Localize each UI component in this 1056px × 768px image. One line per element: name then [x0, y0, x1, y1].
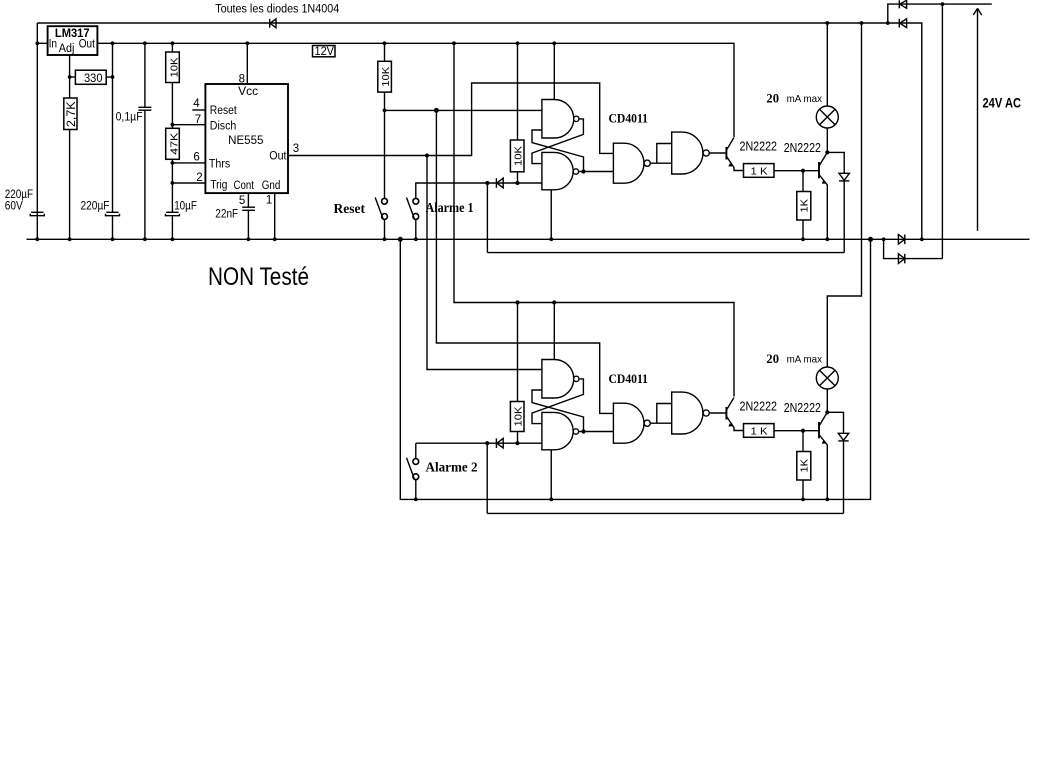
- junction diode2 line / 10K2: [515, 441, 519, 445]
- svg-text:2: 2: [196, 172, 202, 184]
- transistor Q4 2N2222: [819, 412, 827, 499]
- svg-text:10K: 10K: [169, 58, 181, 78]
- wire NE555 Out pin3: [288, 83, 613, 156]
- junction diode line left: [485, 181, 489, 185]
- wire 1K pulldown to lower rail: [802, 480, 804, 499]
- arrow 24V AC: [973, 8, 981, 231]
- wire ground down to lower rail: [400, 239, 870, 499]
- junction lower supply / gate A2: [552, 300, 556, 304]
- svg-text:220µF: 220µF: [81, 200, 110, 212]
- transistor Q3 2N2222: [726, 398, 743, 431]
- svg-text:330: 330: [84, 71, 103, 85]
- NAND gate B2 (latch lower): [542, 412, 579, 449]
- diode D2 on upper branch: [899, 0, 906, 8]
- resistor 1 K base lower: [744, 424, 775, 438]
- svg-text:2N2222: 2N2222: [740, 140, 778, 154]
- junction top rail to lamp1: [825, 21, 829, 25]
- NAND gate A (latch upper): [542, 100, 579, 139]
- svg-text:In: In: [49, 38, 58, 50]
- junction Q4 collector node: [825, 410, 829, 414]
- NAND gate D2: [672, 392, 710, 434]
- diode D5 flyback upper: [827, 152, 849, 252]
- switch Alarme 2: [407, 458, 419, 500]
- svg-text:Adj: Adj: [59, 43, 75, 55]
- wire top-right upper branch: [888, 4, 992, 23]
- junction on top line: [941, 2, 945, 6]
- svg-text:Toutes les diodes 1N4004: Toutes les diodes 1N4004: [215, 3, 340, 15]
- wire from top line down to lower diode pair: [941, 4, 943, 259]
- junction lower supply / 10K2: [515, 300, 519, 304]
- wire 10K to 47K: [171, 83, 173, 129]
- svg-text:10µF: 10µF: [174, 200, 197, 212]
- svg-text:1 K: 1 K: [751, 166, 768, 178]
- wire gate B bottom to ground: [550, 190, 552, 240]
- wire pin1 Gnd: [274, 193, 276, 239]
- junction ground / right vertical: [920, 237, 924, 241]
- junction lower-rail/ground right: [868, 237, 873, 242]
- junction gateB2/lower rail: [549, 498, 553, 502]
- capacitor 0,1uF: [116, 107, 152, 239]
- svg-text:60V: 60V: [5, 201, 23, 213]
- wire pin5 Cont: [247, 193, 249, 207]
- switch Alarme 1: [407, 198, 419, 240]
- junction 1K/ground: [801, 237, 805, 241]
- wire LM317 In: [37, 42, 47, 44]
- junction Trig: [171, 181, 175, 185]
- junction Disch: [171, 123, 175, 127]
- transistor Q2 2N2222: [819, 152, 827, 239]
- junction alarme2/lower rail: [414, 498, 418, 502]
- junction rail/gateA: [552, 41, 556, 45]
- wire flyback return upper: [487, 183, 844, 253]
- diode D1 on top rail: [270, 19, 276, 28]
- junction top rail to lamp2 branch: [860, 21, 864, 25]
- svg-text:CD4011: CD4011: [609, 110, 649, 125]
- svg-text:Gnd: Gnd: [262, 180, 281, 192]
- transistor Q1 2N2222: [726, 138, 743, 171]
- wire 330 right lead: [106, 76, 112, 78]
- junction pin8: [245, 41, 249, 45]
- diode D7 alarme2 line: [496, 438, 503, 448]
- svg-text:Trig: Trig: [210, 180, 227, 192]
- junction 1K2/lower rail: [801, 498, 805, 502]
- capacitor 10uF: [165, 200, 197, 239]
- wire top supply rail: [37, 23, 922, 239]
- wire 10K latch to diode line: [517, 172, 519, 183]
- svg-text:2N2222: 2N2222: [740, 400, 778, 414]
- wire 330 left lead: [70, 76, 76, 78]
- junction gate B2 output: [581, 429, 585, 433]
- junction diode line / 10K: [515, 181, 519, 185]
- wire pin2 Trig: [172, 182, 205, 184]
- junction diode2 line left: [485, 441, 489, 445]
- svg-text:Reset: Reset: [334, 202, 366, 217]
- svg-text:5: 5: [239, 195, 245, 207]
- lamp LP1: [816, 106, 838, 128]
- junction ground/diode branch: [882, 237, 886, 241]
- NAND gate A2 (latch upper): [542, 360, 579, 399]
- svg-text:1: 1: [266, 194, 272, 206]
- junction reset node branch down: [434, 108, 439, 113]
- wire gate B2 bottom to lower rail: [550, 450, 552, 500]
- svg-text:6: 6: [193, 151, 199, 163]
- LM317 U1: [48, 26, 98, 55]
- svg-text:Vcc: Vcc: [238, 86, 258, 98]
- svg-text:22nF: 22nF: [215, 209, 238, 221]
- svg-text:20: 20: [766, 351, 779, 366]
- svg-text:Alarme 2: Alarme 2: [426, 461, 478, 476]
- wire 220uF#2 branch: [112, 43, 114, 212]
- wire lower diode branch: [884, 239, 943, 258]
- resistor 47K: [166, 128, 181, 159]
- diode D9 lower branch: [898, 254, 904, 264]
- label 20 mA max lower: [766, 351, 822, 366]
- svg-text:1 K: 1 K: [751, 426, 768, 438]
- svg-text:Reset: Reset: [210, 105, 238, 117]
- junction Adj/330: [68, 75, 72, 79]
- wire 1K to Q2 base: [774, 170, 819, 172]
- svg-text:1K: 1K: [799, 199, 811, 213]
- label 20 mA max upper: [766, 90, 822, 105]
- wire gate C out to gate D inputs: [650, 162, 671, 164]
- wire lamp1 feed: [826, 23, 828, 106]
- wire gate D2 out to Q3 base: [709, 412, 726, 414]
- NAND gate C2: [613, 403, 650, 443]
- junction In: [35, 41, 39, 45]
- wire gate D out to Q1 base: [709, 152, 726, 154]
- svg-text:Thrs: Thrs: [209, 159, 231, 171]
- wire out down to lower gate A2 input: [427, 156, 542, 370]
- junction rail/220uF#2: [111, 41, 115, 45]
- svg-text:Cont: Cont: [234, 180, 255, 192]
- junction reset node: [383, 109, 387, 113]
- svg-text:mA max: mA max: [787, 93, 823, 105]
- wire alarme1 to latch input: [416, 183, 542, 198]
- wire pin6 Thrs: [172, 162, 205, 164]
- NE555 U2: [205, 84, 288, 193]
- wire LM317 Adj down: [69, 55, 71, 98]
- wire latch crossover A-out to B-in: [532, 119, 583, 164]
- wire 10K latch2 pullup branch: [517, 303, 519, 402]
- wire lamp1 to Q2 collector: [826, 128, 828, 152]
- svg-text:10K: 10K: [513, 407, 525, 427]
- wire lamp2 to Q4 collector: [826, 389, 828, 412]
- wire latch2 crossover B2-out to A2-in: [532, 390, 584, 432]
- resistor 1 K base: [744, 164, 775, 178]
- wire 10K to reset switch: [384, 92, 386, 198]
- junction Q4 emitter/lower rail: [825, 498, 829, 502]
- wire 2,7K to ground: [69, 130, 71, 240]
- wire reset node to gate A input: [385, 109, 542, 111]
- resistor 10K latch2 pullup: [510, 402, 524, 432]
- svg-text:Out: Out: [269, 151, 287, 163]
- junction base node lower: [801, 429, 805, 433]
- ground junctions: [35, 237, 276, 241]
- junction top rail to upper branch: [886, 21, 890, 25]
- wire 12V rail from LM317 Out: [97, 43, 734, 137]
- svg-text:220µF: 220µF: [5, 189, 33, 201]
- svg-text:CD4011: CD4011: [609, 371, 649, 386]
- junction reset/ground: [383, 237, 387, 241]
- svg-text:Disch: Disch: [210, 120, 237, 132]
- wire gate C2 out to gate D2 inputs: [650, 422, 671, 424]
- resistor 10K latch pullup: [510, 140, 524, 172]
- capacitor 22nF: [215, 207, 255, 239]
- svg-text:10K: 10K: [380, 67, 392, 87]
- junction 330/rail line: [111, 75, 115, 79]
- wire gate B out to gate C: [579, 171, 614, 173]
- wire gate C2 out step up: [657, 404, 672, 424]
- wire flyback return lower: [487, 443, 843, 513]
- resistor 10K reset pullup: [378, 61, 392, 92]
- resistor 1K pulldown lower: [797, 452, 811, 481]
- resistor 1K pulldown: [797, 192, 811, 221]
- junction Q2 emitter/ground: [825, 237, 829, 241]
- junction gate B output: [581, 169, 585, 173]
- svg-text:7: 7: [195, 114, 201, 126]
- ground rail: [27, 238, 1030, 240]
- junction base node: [801, 169, 805, 173]
- svg-text:2,7K: 2,7K: [66, 101, 78, 127]
- resistor 10K timing: [166, 52, 181, 83]
- wire gate C out step up: [657, 144, 672, 164]
- wire 10K timing branch: [171, 43, 173, 52]
- capacitor 220uF #1: [5, 189, 45, 216]
- wire 1K to Q4 base: [774, 430, 819, 432]
- wire left input vertical: [36, 23, 38, 239]
- wire latch crossover B-out to A-in: [532, 130, 584, 172]
- label 12V: [313, 46, 336, 59]
- svg-text:20: 20: [766, 90, 779, 105]
- wire 10K pullup reset branch: [384, 43, 386, 61]
- svg-text:3: 3: [293, 143, 299, 155]
- wire reset down to lower gate C2 input: [436, 110, 613, 413]
- wire 1K pulldown to ground: [802, 220, 804, 239]
- wire pin8 Vcc: [246, 43, 248, 84]
- svg-text:2N2222: 2N2222: [784, 401, 821, 415]
- junction alarme1/ground: [414, 237, 418, 241]
- resistor 330: [75, 70, 106, 85]
- junction ground big node: [398, 237, 403, 242]
- junction Thrs: [171, 161, 175, 165]
- wire pin7 Disch: [172, 124, 205, 126]
- wire gate B2 out to gate C2: [579, 431, 614, 433]
- svg-text:24V AC: 24V AC: [983, 94, 1022, 110]
- junction out branch: [425, 153, 429, 157]
- svg-text:47K: 47K: [169, 133, 181, 155]
- wire 47K down: [171, 159, 173, 212]
- wire base node to 1K pulldown: [802, 171, 804, 192]
- junction rail/0,1uF: [143, 41, 147, 45]
- svg-text:2N2222: 2N2222: [784, 141, 821, 155]
- capacitor 220uF #2: [81, 200, 120, 239]
- wire latch2 crossover A2-out to B2-in: [532, 379, 583, 424]
- svg-text:Alarme 1: Alarme 1: [426, 201, 474, 216]
- junction rail/10K latch: [516, 41, 520, 45]
- wire lamp2 feed from top rail: [827, 23, 861, 367]
- svg-text:0,1µF: 0,1µF: [116, 112, 143, 124]
- diode D4 alarme1 line: [496, 178, 503, 188]
- svg-text:8: 8: [239, 74, 245, 86]
- NAND gate D: [672, 132, 710, 174]
- switch Reset: [375, 198, 387, 240]
- junction rail branch: [452, 41, 456, 45]
- NAND gate B (latch lower): [542, 152, 579, 189]
- resistor 2,7K: [64, 98, 78, 130]
- diode D8 ground rail right: [898, 235, 904, 245]
- wire 10K latch2 to diode line: [517, 432, 519, 444]
- junction Q2 collector node: [825, 150, 829, 154]
- diode D3 on top rail right: [899, 19, 906, 28]
- svg-text:mA max: mA max: [787, 354, 823, 366]
- wire lower supply to gate A2 top: [553, 303, 555, 360]
- wire alarme2 to latch2 input: [416, 443, 542, 458]
- svg-text:10K: 10K: [513, 146, 525, 166]
- svg-text:4: 4: [193, 98, 200, 110]
- lamp LP2: [816, 367, 838, 389]
- svg-text:12V: 12V: [315, 46, 335, 58]
- junction gateB/ground: [549, 237, 553, 241]
- junction rail/10K: [171, 41, 175, 45]
- wire 10K latch pullup branch: [517, 43, 519, 140]
- diode D6 flyback lower: [827, 412, 848, 513]
- wire latch pullup from rail to gate A top: [553, 43, 555, 99]
- pin 4 stub: [192, 109, 205, 111]
- wire 12V rail down to lower supply line: [454, 43, 734, 396]
- wire base node to 1K pulldown lower: [802, 431, 804, 452]
- svg-text:1K: 1K: [799, 459, 811, 473]
- wire 0,1uF branch: [144, 43, 146, 107]
- junction rail/10K reset: [383, 41, 387, 45]
- svg-text:NON Testé: NON Testé: [208, 263, 309, 291]
- NAND gate C: [613, 143, 650, 183]
- svg-text:NE555: NE555: [228, 135, 263, 147]
- svg-text:Out: Out: [79, 38, 96, 50]
